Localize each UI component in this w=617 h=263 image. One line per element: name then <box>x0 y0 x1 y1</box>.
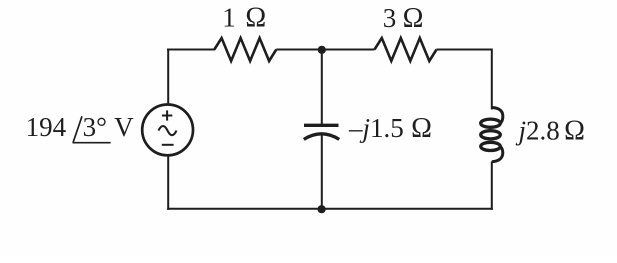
svg-text:3: 3 <box>383 3 397 33</box>
svg-text:V: V <box>114 112 134 142</box>
inductor loop 3 <box>481 142 501 150</box>
inductor loop 1 <box>481 119 501 127</box>
wire left branch upper <box>167 49 169 105</box>
inductor loop 2 <box>481 131 501 139</box>
capacitor bottom curved plate <box>304 134 339 140</box>
angle underline <box>73 142 111 144</box>
inductor exit hook <box>492 146 503 162</box>
source minus sign <box>162 144 174 146</box>
svg-text:–j1.5: –j1.5 <box>348 113 404 143</box>
svg-text:Ω: Ω <box>403 3 424 34</box>
resistor 3 ohm zigzag <box>375 38 437 61</box>
wire right branch upper <box>491 49 493 110</box>
source sine wave <box>159 126 177 135</box>
wire left branch lower <box>167 156 169 210</box>
svg-text:194: 194 <box>26 112 67 142</box>
wire top-left horizontal segment <box>167 49 215 51</box>
capacitor top plate <box>304 124 339 127</box>
svg-text:Ω: Ω <box>564 116 585 147</box>
wire top-middle segment <box>276 49 374 51</box>
svg-text:j2.8: j2.8 <box>516 116 560 146</box>
source plus sign <box>162 115 172 117</box>
source circle <box>142 104 193 155</box>
svg-text:Ω: Ω <box>245 3 266 34</box>
node junction bottom <box>318 205 326 213</box>
wire bottom rail <box>167 208 493 210</box>
wire middle branch upper <box>321 50 323 126</box>
angle slash <box>73 116 82 142</box>
svg-text:1: 1 <box>222 3 236 33</box>
resistor 1 ohm zigzag <box>214 38 276 61</box>
inductor entry hook <box>492 108 503 124</box>
node junction top <box>318 46 326 54</box>
svg-text:3°: 3° <box>83 112 107 142</box>
svg-text:Ω: Ω <box>411 113 432 144</box>
wire right branch lower <box>491 162 493 210</box>
wire top-right segment <box>437 49 493 51</box>
wire middle branch lower <box>321 134 323 210</box>
